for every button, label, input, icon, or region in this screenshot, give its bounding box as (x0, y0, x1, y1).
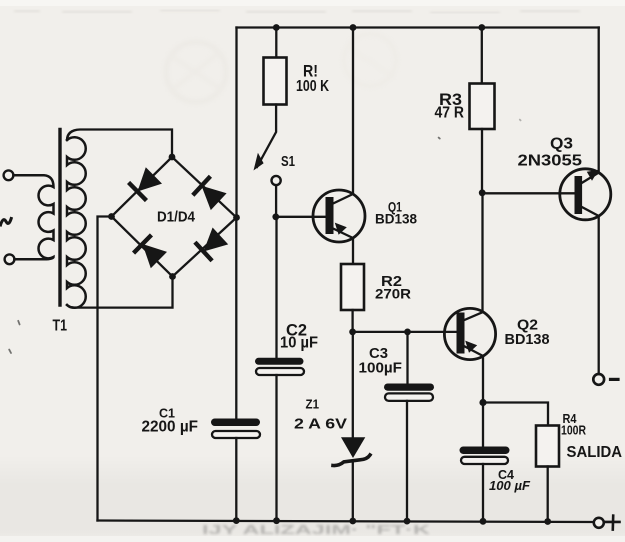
terminal: output minus (593, 374, 604, 385)
svg-text:T1: T1 (53, 318, 68, 335)
wire: left rail down through C1 (235, 218, 237, 419)
capacitor C3 (384, 384, 434, 401)
svg-text:D1/D4: D1/D4 (157, 210, 195, 226)
transformer T1 primary winding (13, 175, 53, 259)
AC symbol (vertical tilde) (1, 219, 12, 226)
wire: junction to Q2 base (353, 331, 457, 333)
node: bridge bottom corner (169, 273, 176, 280)
node: C3 bottom (404, 518, 411, 525)
diode D2 (top-right arm) (194, 178, 226, 210)
svg-text:47 R: 47 R (435, 105, 465, 122)
node: Q1 collector-line top junction (350, 24, 357, 31)
svg-text:S1: S1 (281, 154, 295, 170)
transformer T1 secondary winding (67, 137, 86, 308)
wire: C4 to bottom rail (482, 464, 484, 521)
wire: Q2 emitter down (482, 356, 484, 403)
diode D1 (top-left arm) (130, 167, 162, 199)
wire: S1 to base junction (275, 185, 277, 216)
transistor Q2 (444, 308, 495, 359)
svg-text:Q3: Q3 (550, 136, 573, 153)
wire: Q3 collector down to minus terminal (598, 216, 600, 374)
wire: Q1 base wire (276, 216, 326, 218)
node: bridge left corner (108, 213, 115, 220)
wire: C2 to bottom rail (275, 375, 277, 521)
wire: R3 bottom to junction (481, 129, 483, 193)
wire: R3 top lead (481, 28, 483, 84)
capacitor C2 (255, 358, 304, 375)
switch S1 contact circle (272, 176, 281, 185)
terminal: AC input top (4, 170, 14, 180)
svg-text:100µF: 100µF (359, 360, 403, 377)
terminal: output plus (594, 518, 604, 528)
switch S1 blade arrowhead (254, 153, 264, 171)
transistor Q3 (560, 169, 611, 220)
node: C2 bottom (273, 517, 280, 524)
resistor R2 (341, 264, 364, 310)
ghost text under bottom rail (202, 522, 431, 537)
zener diode Z1 (333, 437, 370, 465)
wire: bridge arm T-L (112, 157, 173, 217)
wire: Z1 bottom to rail (352, 461, 354, 521)
wire: Z1 top lead (352, 332, 354, 437)
node: S1 / Q1 base / C2 junction (272, 213, 279, 220)
wire: bridge arm L-B (112, 217, 173, 277)
wire: C3 to bottom rail (406, 401, 408, 521)
svg-text:SALIDA: SALIDA (567, 444, 623, 461)
svg-text:2N3055: 2N3055 (518, 153, 583, 170)
wire: R1 top lead (275, 28, 277, 58)
diode D3 (bottom-left arm) (135, 237, 167, 269)
wire: Q2 collector up to R3 junction (481, 193, 483, 312)
capacitor C4 (460, 447, 510, 465)
node: C3 junction (404, 329, 411, 336)
diode D4 (bottom-right arm) (196, 228, 228, 260)
node: R2 / Z1 junction (349, 329, 356, 336)
wire: left vertical rail (top rail down to bridge right corner) (235, 28, 237, 218)
wire: right vertical from top rail down to Q3 emitter (598, 28, 600, 173)
wire: R4 bottom to rail (547, 467, 549, 522)
resistor R3 (470, 84, 495, 130)
wire: C4 branch down (482, 403, 484, 447)
svg-text:BD138: BD138 (505, 332, 550, 348)
wire: secondary top to bridge top corner (67, 130, 172, 158)
svg-text:10 µF: 10 µF (280, 335, 318, 352)
scanner speck row top (14, 10, 580, 13)
wire: bottom rail (98, 521, 594, 523)
resistor R1 (264, 58, 287, 105)
wire: bridge arm B-R (173, 218, 237, 277)
svg-text:270R: 270R (375, 286, 411, 302)
wire: bridge arm T-R (172, 157, 237, 218)
node: bridge top corner (169, 154, 176, 161)
svg-text:100 µF: 100 µF (489, 478, 531, 493)
wire: C3 branch down (406, 332, 408, 384)
wire: Q1 top to rail (352, 28, 354, 195)
plus sign (604, 516, 620, 530)
transistor Q1 (313, 190, 365, 242)
wire: secondary bottom to bridge bottom corner (67, 277, 173, 308)
wire: C1 to bottom rail (235, 438, 237, 521)
node: R1 top junction (273, 24, 280, 31)
node: R4 bottom (544, 518, 551, 525)
svg-text:BD138: BD138 (375, 211, 417, 227)
node: C1 bottom (233, 517, 240, 524)
node: R3 top junction (478, 24, 485, 31)
wire: Q3 base wire (482, 192, 574, 194)
svg-text:Z1: Z1 (306, 398, 320, 412)
node: R3 / Q3 base junction (479, 189, 486, 196)
svg-text:2200 µF: 2200 µF (142, 419, 199, 436)
wire: bridge left corner to bottom rail (98, 217, 112, 521)
capacitor C1 (211, 419, 260, 439)
svg-text:100 K: 100 K (296, 78, 329, 95)
transformer T1 core (58, 130, 61, 306)
minus sign (611, 378, 619, 381)
wire: Q1 bottom to R2 (352, 238, 354, 264)
terminal: AC input bottom (5, 254, 15, 264)
node: bridge right corner (233, 214, 240, 221)
svg-text:100R: 100R (561, 423, 586, 437)
wire: junction to R4 (483, 403, 548, 426)
wire: R1 bottom lead into switch blade (257, 105, 276, 168)
node: Q2 emitter / R4 / C4 junction (479, 399, 486, 406)
wire: top supply rail (237, 26, 599, 28)
wire: R2 bottom to junction (351, 310, 353, 332)
wire: C2 branch down (275, 217, 277, 358)
svg-text:2 A 6V: 2 A 6V (294, 417, 347, 433)
node: C4 bottom (480, 518, 487, 525)
resistor R4 (536, 426, 559, 467)
svg-text:IJY ALIZAJIM· "FT·K: IJY ALIZAJIM· "FT·K (202, 522, 431, 537)
ghost circle top-left (show-through) (166, 34, 396, 102)
node: Z1 bottom (349, 518, 356, 525)
paper specks (9, 120, 520, 353)
